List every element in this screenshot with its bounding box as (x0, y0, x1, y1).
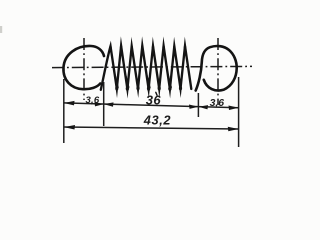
arrow left end row2 (64, 125, 75, 130)
horizontal centerline (52, 66, 252, 67)
extension line left (x=63.8) (63, 79, 65, 143)
arrows at x=103.7 row1 (95, 102, 104, 106)
spring coil zigzag (101, 46, 192, 90)
paper background (0, 0, 287, 195)
scan blemish left edge (0, 26, 2, 33)
left hook loop (63, 46, 104, 89)
svg-text:43,2: 43,2 (143, 113, 171, 128)
arrow right end row2 (228, 127, 239, 132)
right hook centerline vertical (217, 38, 219, 105)
dimension line row2 (43,2) (64, 127, 239, 129)
svg-text:36: 36 (146, 93, 162, 108)
arrows at x=198.4 row1 (189, 105, 198, 109)
coil overshoot ticks (115, 74, 171, 88)
arrow left end row1 (64, 101, 75, 106)
arrow right end row1 (229, 106, 239, 111)
extension line inner-right (x=198.4) (197, 93, 199, 117)
coil valley ink blobs (115, 86, 182, 91)
left hook centerline vertical (83, 38, 85, 100)
svg-text:3,6: 3,6 (86, 95, 100, 106)
dimension line row1 (3,6 / 36 / 3,6) (64, 103, 239, 108)
coil peak ink blunting (109, 45, 186, 49)
extension line inner-left (x=103.7) (103, 82, 105, 126)
svg-text:3,6: 3,6 (210, 98, 225, 109)
apostrophe tick over 36 (156, 92, 157, 95)
right hook loop (196, 46, 237, 91)
extension line right (x=238.6) (238, 77, 240, 147)
